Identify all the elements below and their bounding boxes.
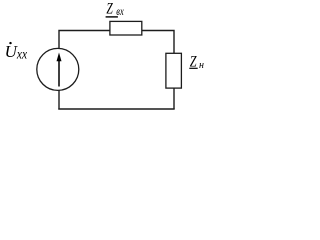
wire bottom [58,108,174,110]
wire top-right segment [142,31,174,54]
resistor Zvx body [110,21,142,35]
source arrow shaft [58,60,60,87]
label Z vx underline [106,16,118,17]
wire top-left segment [59,31,110,49]
wire bottom-left segment [58,91,60,110]
source U1 circle [37,48,79,90]
svg-text:Z: Z [106,0,113,17]
label U dot [9,42,11,44]
source arrow head [57,53,62,62]
wire right-bottom segment [173,88,175,109]
svg-text:вх: вх [116,6,124,18]
svg-text:н: н [199,60,204,71]
label Z n underline [189,68,197,69]
resistor Zn body [166,53,182,88]
svg-text:xx: xx [16,48,28,63]
